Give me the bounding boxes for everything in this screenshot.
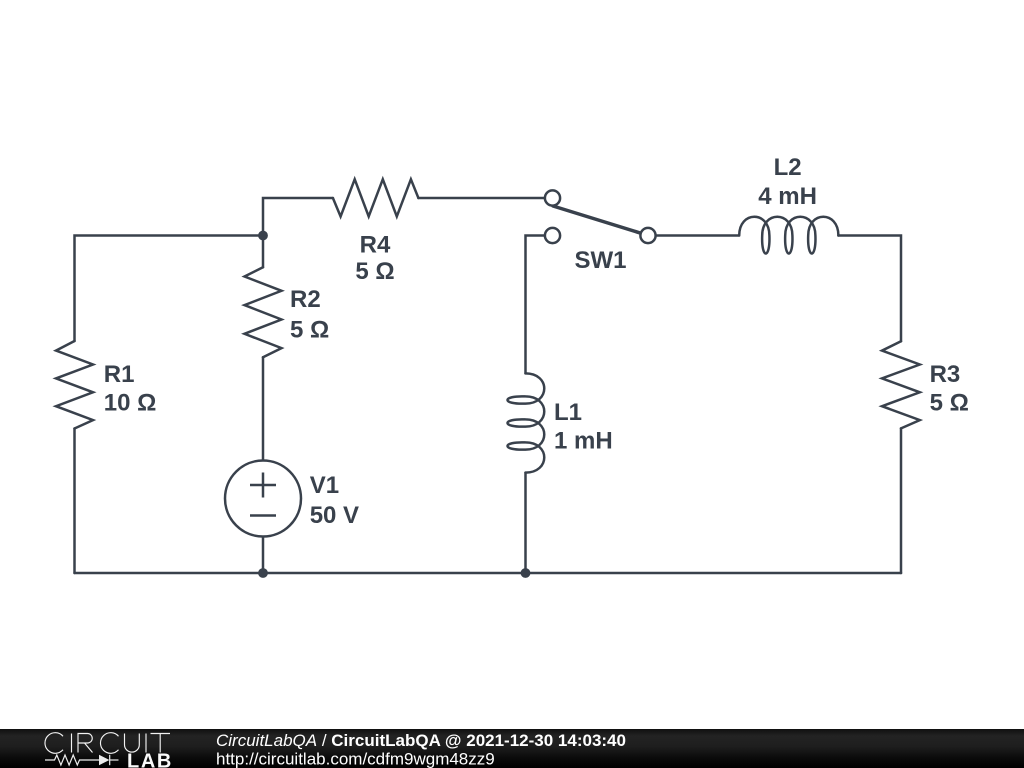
svg-text:http://circuitlab.com/cdfm9wgm: http://circuitlab.com/cdfm9wgm48zz9 — [216, 750, 495, 768]
svg-text:1 mH: 1 mH — [554, 428, 613, 455]
svg-text:LAB: LAB — [127, 750, 173, 768]
svg-text:5 Ω: 5 Ω — [930, 390, 969, 417]
svg-text:V1: V1 — [310, 472, 339, 499]
node junction at A — [258, 231, 268, 241]
node junction bottom V1 — [258, 568, 268, 578]
wire left vertical below R1 — [73, 429, 76, 574]
voltage source V1 — [225, 461, 301, 537]
switch SW1 terminal C — [640, 228, 655, 243]
wire R4 to switch terminal — [418, 197, 545, 200]
switch SW1 terminal A — [545, 190, 560, 205]
logo CIRCUIT wordmark — [45, 733, 170, 754]
wire R2 to V1 — [262, 357, 265, 460]
svg-text:L1: L1 — [554, 399, 582, 426]
svg-text:SW1: SW1 — [575, 247, 627, 274]
svg-text:R2: R2 — [290, 286, 321, 313]
switch SW1 lever — [553, 206, 642, 233]
switch SW1 terminal B — [545, 228, 560, 243]
svg-text:5 Ω: 5 Ω — [355, 258, 394, 285]
wire node A down to R2 — [262, 236, 265, 268]
svg-text:L2: L2 — [774, 154, 802, 181]
svg-text:4 mH: 4 mH — [758, 183, 817, 210]
wire switch throw C to L2 — [655, 234, 739, 237]
resistor R3 — [882, 341, 920, 428]
svg-text:CircuitLabQA / CircuitLabQA @: CircuitLabQA / CircuitLabQA @ 2021-12-30… — [216, 731, 626, 750]
inductor L2 — [739, 217, 838, 254]
svg-text:R4: R4 — [360, 232, 391, 259]
wire right rail below R3 — [900, 428, 903, 573]
resistor R2 — [245, 267, 282, 357]
wire L1 to bottom rail — [524, 473, 527, 573]
svg-text:10 Ω: 10 Ω — [104, 389, 157, 416]
svg-text:5 Ω: 5 Ω — [290, 316, 329, 343]
footer bar — [0, 729, 1024, 768]
wire node A up and right to R4 — [263, 198, 333, 236]
wire V1 to bottom rail — [262, 537, 265, 574]
wire top-left horizontal from R1 branch to node A — [75, 236, 264, 342]
wire switch pole B to L1 — [526, 236, 546, 374]
svg-text:R1: R1 — [104, 361, 135, 388]
wire bottom rail — [75, 572, 902, 575]
node junction bottom L1 — [521, 568, 531, 578]
logo schematic squiggle — [45, 755, 119, 765]
resistor R1 — [56, 341, 93, 429]
svg-text:50 V: 50 V — [310, 502, 359, 529]
svg-text:R3: R3 — [930, 361, 961, 388]
wire L2 to right rail — [838, 236, 901, 342]
resistor R4 — [333, 179, 419, 216]
inductor L1 — [508, 373, 545, 472]
